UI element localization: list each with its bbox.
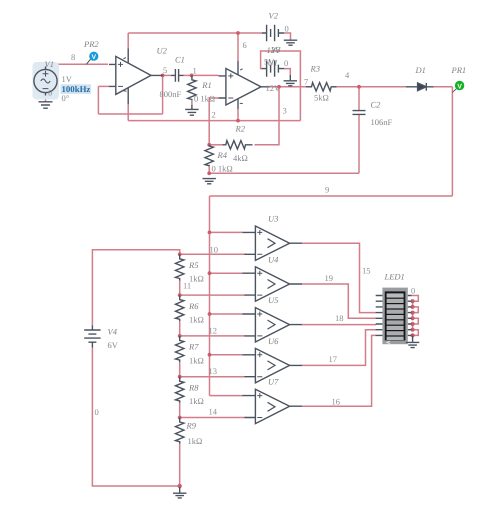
svg-text:R3: R3: [310, 64, 320, 74]
wire R5 bottom to tap 11: [179, 281, 181, 296]
junction tap 11: [178, 293, 182, 297]
junction U3 + tap: [208, 231, 212, 235]
wire V4 bottom net 0: [92, 348, 179, 487]
wire U1 V+ stub to top rail: [237, 33, 239, 61]
svg-text:12: 12: [209, 326, 218, 336]
junction node 1: [190, 74, 194, 78]
wire R7 bottom to tap 13: [179, 362, 181, 377]
svg-text:15: 15: [362, 266, 371, 276]
wire net 18 U5 output to LED pin 6: [302, 324, 376, 326]
wire U4 + input: [210, 272, 244, 274]
svg-text:D1: D1: [415, 65, 426, 75]
svg-text:U5: U5: [268, 295, 278, 305]
svg-text:800nF: 800nF: [160, 89, 182, 99]
svg-text:R4: R4: [217, 150, 228, 160]
value V1 100kHz highlighted: [61, 84, 92, 94]
wire U5 + input: [210, 313, 244, 315]
resistor R3: [306, 83, 337, 91]
wire net 2 U1 inverting to R2 R4 junction: [209, 98, 218, 145]
svg-text:106nF: 106nF: [371, 117, 393, 127]
source V1 highlight box: [33, 62, 60, 100]
svg-text:0 1kΩ: 0 1kΩ: [194, 94, 215, 104]
source V1 body: [34, 67, 57, 96]
resistor R8: [176, 377, 184, 403]
wire LED cathode chain 6-7: [412, 324, 414, 330]
comparator U6: [243, 348, 303, 382]
svg-text:PR2: PR2: [83, 39, 99, 49]
svg-text:7: 7: [304, 77, 308, 87]
comparator U3: [243, 226, 303, 260]
wire U2 feedback left vertical: [97, 86, 99, 114]
wire R1 bottom lead to ground: [191, 100, 193, 105]
svg-text:U1: U1: [268, 58, 278, 68]
LED1 right pins: [408, 296, 412, 336]
wire C2 top lead: [358, 87, 360, 110]
svg-text:U2: U2: [157, 46, 168, 56]
junction U1 V- on supply rail: [236, 119, 240, 123]
wire U6 + input: [210, 354, 244, 356]
probe PR1: [452, 81, 464, 93]
wire net 7 U1 output to R3: [270, 86, 312, 88]
svg-text:16: 16: [332, 397, 341, 407]
svg-text:0: 0: [95, 407, 99, 417]
wire V4 top to ladder top: [92, 250, 179, 326]
wire LED cathode chain 4-5: [412, 313, 414, 319]
junction U5 + tap: [208, 312, 212, 316]
resistor R9: [176, 418, 184, 444]
svg-text:R6: R6: [188, 301, 199, 311]
wire V2 right lead to ground: [284, 33, 291, 40]
capacitor C2: [353, 111, 366, 115]
svg-text:U6: U6: [268, 336, 279, 346]
junction tap 10: [178, 252, 182, 256]
LED1 left pins: [376, 296, 383, 336]
junction net 0 R4 ground: [207, 171, 211, 175]
wire net 3 R2 right to U1 output: [255, 87, 280, 145]
svg-text:1V: 1V: [62, 74, 73, 84]
ground below LED1: [406, 335, 419, 347]
wire net 12 tap to U5 - input: [180, 335, 246, 337]
wire net 10 tap to U3 - input: [180, 253, 246, 255]
wire net 6 top rail U2 feedback to V2: [128, 32, 262, 34]
svg-text:12V: 12V: [266, 83, 282, 93]
op-amp U2: [109, 49, 163, 105]
wire U3 + input: [210, 231, 244, 233]
wire C1 to node 1: [184, 74, 192, 76]
wire LED cathode chain bulge 7-8: [413, 330, 419, 336]
wire feedback bottom: [98, 113, 162, 115]
capacitor C1: [171, 69, 184, 82]
wire R6 bottom to tap 12: [179, 321, 181, 336]
svg-text:C2: C2: [371, 100, 382, 110]
wire net 9 vertical from PR1: [451, 87, 453, 196]
wire LED cathode chain bulge 3-4: [413, 307, 419, 313]
wire net 8 V1 to U2 + input: [46, 64, 109, 67]
wire R2 left lead: [209, 144, 222, 146]
svg-text:1: 1: [193, 66, 197, 76]
junction LED chain pin 8: [411, 333, 415, 337]
wire LED cathode chain 2-3: [412, 301, 414, 307]
wire net 0 R4 ground to C2: [209, 172, 359, 174]
svg-text:V2: V2: [269, 11, 279, 21]
junction LED chain pin 3: [411, 305, 415, 309]
wire D1 to PR1 corner: [434, 86, 453, 88]
wire net 17 U6 output to LED pin 7: [302, 330, 376, 366]
svg-text:R9: R9: [186, 421, 197, 431]
wire net 9 horizontal: [210, 195, 453, 197]
junction LED chain pin 5: [411, 316, 415, 320]
svg-text:8: 8: [71, 52, 75, 62]
wire U1 V- stub down: [237, 109, 239, 121]
svg-text:1kΩ: 1kΩ: [189, 355, 204, 365]
resistor R5: [176, 254, 184, 280]
wire net 14 tap to U7 - input: [180, 417, 246, 419]
battery V2: [262, 25, 284, 41]
wire net 15 U3 output to LED pin 4: [302, 243, 376, 312]
resistor R2: [223, 141, 253, 149]
junction LED chain pin 6: [411, 322, 415, 326]
junction LED chain pin 4: [411, 311, 415, 315]
svg-text:3: 3: [283, 106, 287, 116]
wire R4 bottom lead: [208, 166, 210, 173]
svg-text:19: 19: [325, 273, 334, 283]
comparator U7: [243, 389, 303, 423]
svg-text:0: 0: [411, 286, 415, 296]
svg-text:R8: R8: [188, 382, 199, 392]
svg-text:1kΩ: 1kΩ: [189, 274, 204, 284]
resistor R6: [176, 295, 184, 321]
wire net 19 U4 output to LED pin 5: [302, 284, 376, 318]
svg-text:6: 6: [243, 40, 247, 50]
resistor R7: [176, 336, 184, 362]
junction node 6 U1 V+ on top rail: [236, 31, 240, 35]
svg-text:18: 18: [335, 313, 344, 323]
svg-text:0: 0: [284, 58, 288, 68]
svg-text:U4: U4: [268, 254, 279, 264]
wire node 5 to C1: [163, 74, 171, 76]
battery V3: [262, 60, 285, 76]
svg-text:5kΩ: 5kΩ: [314, 93, 329, 103]
wire LED cathode chain bulge 5-6: [413, 318, 419, 324]
svg-text:0: 0: [48, 88, 52, 98]
svg-text:V1: V1: [45, 59, 54, 69]
svg-text:2: 2: [212, 110, 216, 120]
svg-text:R7: R7: [188, 342, 199, 352]
svg-text:17: 17: [329, 354, 338, 364]
wire supply rail right vertical to V3: [261, 51, 301, 121]
junction node 2 R2 R4: [207, 143, 211, 147]
wire V3 right lead to ground: [284, 69, 290, 75]
svg-text:LED1: LED1: [384, 272, 405, 282]
battery V4: [84, 325, 100, 347]
op-amp U1: [219, 61, 270, 109]
svg-text:9: 9: [325, 185, 329, 195]
wire net 11 tap to U4 - input: [180, 294, 246, 296]
wire V1 bottom lead to ground: [45, 95, 47, 101]
svg-text:0 1kΩ: 0 1kΩ: [212, 164, 233, 174]
svg-text:C1: C1: [175, 55, 185, 65]
junction node 4: [357, 85, 361, 89]
svg-text:U7: U7: [268, 377, 279, 387]
svg-text:PR1: PR1: [451, 65, 467, 75]
comparator U5: [243, 308, 303, 342]
svg-text:1kΩ: 1kΩ: [188, 436, 203, 446]
svg-text:R2: R2: [235, 124, 246, 134]
wire U2 feedback to inverting input: [98, 85, 109, 87]
ground below V3: [284, 75, 297, 86]
ground below ladder: [173, 487, 186, 498]
wire net 4 R3 to D1: [333, 86, 407, 88]
ground below R1: [185, 105, 198, 115]
junction tap 14: [178, 416, 182, 420]
LED1 bargraph display body: [382, 288, 407, 345]
ground below V1: [39, 101, 53, 108]
svg-text:R1: R1: [201, 80, 211, 90]
svg-text:1kΩ: 1kΩ: [189, 396, 204, 406]
ground below R4: [203, 179, 216, 184]
junction U6 + tap: [208, 353, 212, 357]
wire U2 V- stub down to rail: [127, 104, 129, 120]
svg-text:6V: 6V: [108, 340, 119, 350]
svg-text:V3: V3: [271, 45, 280, 55]
svg-text:10: 10: [210, 245, 219, 255]
junction tap 12: [178, 334, 182, 338]
wire node 1 to U1 + input: [192, 74, 219, 76]
wire C2 bottom lead to net 0: [358, 115, 360, 173]
svg-text:13: 13: [209, 366, 218, 376]
junction U1 output node: [277, 85, 281, 89]
wire LED cathode chain bulge 1-2: [412, 296, 419, 302]
resistor R4: [205, 145, 213, 166]
wire net 13 tap to U6 - input: [180, 376, 246, 378]
svg-text:14: 14: [209, 407, 218, 417]
svg-text:5: 5: [163, 65, 167, 75]
junction LED chain pin 7: [411, 328, 415, 332]
svg-text:0: 0: [285, 24, 289, 34]
probe PR2: [86, 52, 98, 65]
diode D1: [406, 83, 434, 91]
wire U7 + input: [210, 395, 244, 397]
wire net 16 U7 output to LED pin 8: [302, 335, 376, 406]
wire R9 bottom to net 0: [179, 444, 181, 486]
junction tap 13: [178, 375, 182, 379]
comparator U4: [243, 267, 303, 301]
ground below V2: [284, 40, 297, 45]
junction U4 + tap: [208, 271, 212, 275]
junction LED chain pin 2: [411, 299, 415, 303]
svg-text:U3: U3: [268, 214, 278, 224]
svg-text:V: V: [457, 83, 462, 90]
wire feedback right vertical to node 5: [162, 75, 164, 114]
junction node 5: [161, 74, 165, 78]
svg-text:V: V: [92, 54, 97, 61]
svg-text:1kΩ: 1kΩ: [189, 315, 204, 325]
wire supply rail net horizontal: [128, 120, 300, 122]
svg-text:0°: 0°: [62, 93, 70, 103]
LED1 polarity mark: [387, 341, 390, 344]
svg-text:R5: R5: [188, 260, 198, 270]
wire R8 bottom to tap 14: [179, 403, 181, 418]
wire net 9 left vertical to comparator + inputs: [209, 196, 211, 396]
svg-text:4kΩ: 4kΩ: [233, 153, 248, 163]
wire U2 V+ stub to top rail: [127, 33, 129, 49]
svg-text:V4: V4: [108, 327, 118, 337]
junction net 0 ladder ground: [178, 484, 182, 488]
resistor R1: [188, 75, 196, 100]
